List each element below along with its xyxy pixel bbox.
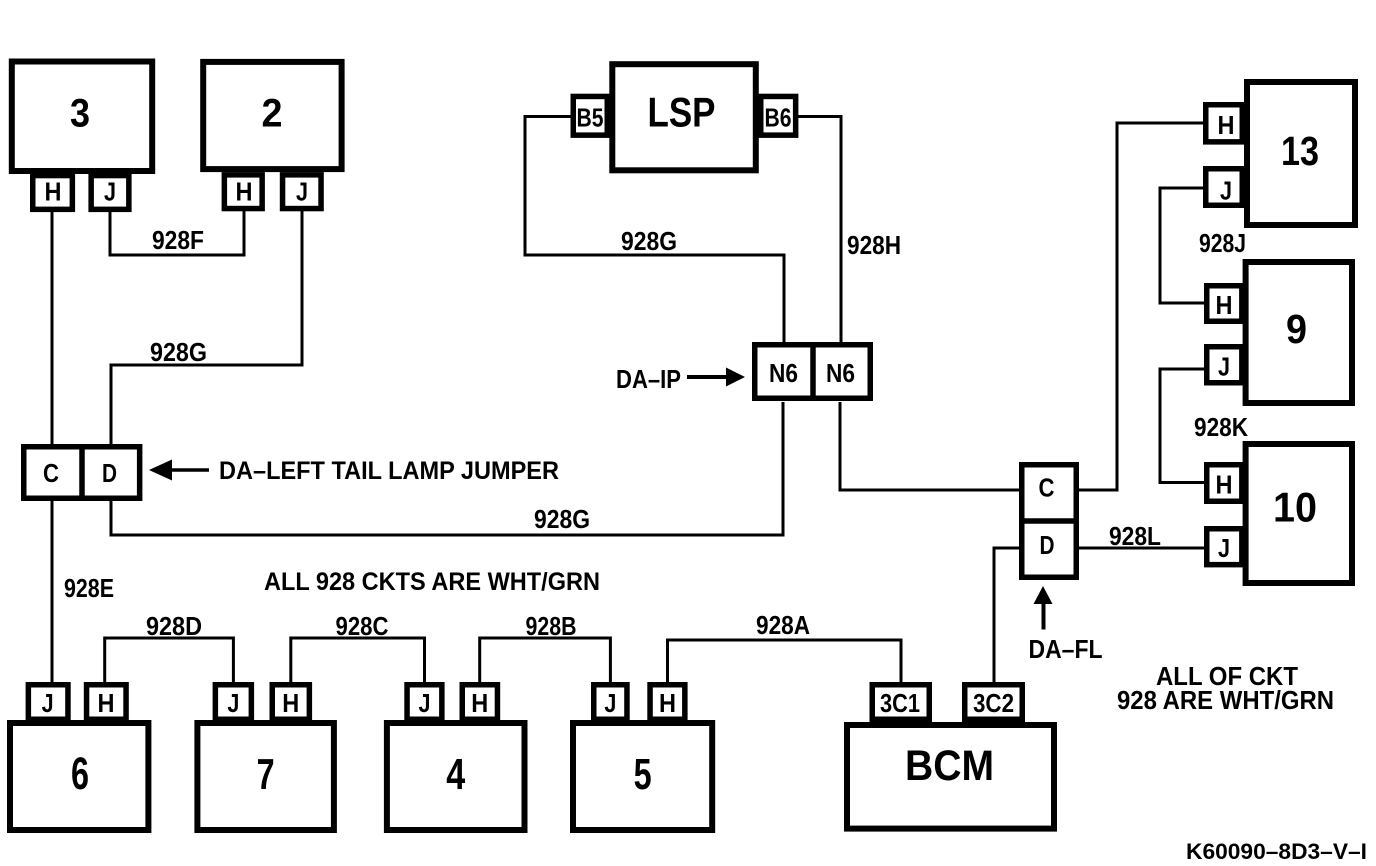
connector J of box 10 bbox=[1207, 529, 1242, 565]
wire 928D from H of 6 to J of 7 bbox=[105, 638, 234, 683]
svg-text:J: J bbox=[1218, 352, 1230, 382]
svg-text:N6: N6 bbox=[826, 358, 855, 388]
svg-text:5: 5 bbox=[634, 750, 652, 799]
svg-text:C: C bbox=[43, 458, 59, 488]
connector 3C1 of BCM bbox=[872, 685, 929, 720]
wire 928H from B6 of LSP to right N6 bbox=[796, 117, 841, 344]
connector H of box 10 bbox=[1207, 465, 1242, 502]
wire 928G long from D of left jumper to left N6 bbox=[111, 402, 783, 535]
svg-text:B5: B5 bbox=[577, 103, 604, 133]
wire 928C from H of 7 to J of 4 bbox=[291, 638, 425, 683]
svg-text:928G: 928G bbox=[150, 337, 207, 367]
svg-text:J: J bbox=[42, 688, 54, 718]
box 3 bbox=[12, 62, 152, 172]
connector H of box 7 bbox=[272, 685, 309, 720]
svg-text:928E: 928E bbox=[64, 573, 114, 603]
svg-text:928A: 928A bbox=[756, 610, 810, 640]
svg-text:H: H bbox=[1218, 110, 1235, 140]
connector J of box 7 bbox=[215, 685, 251, 720]
connector H of box 2 bbox=[224, 175, 262, 209]
connector H of box 6 bbox=[87, 685, 127, 720]
svg-text:DA–LEFT TAIL LAMP JUMPER: DA–LEFT TAIL LAMP JUMPER bbox=[219, 457, 559, 485]
box 2 bbox=[203, 62, 341, 169]
svg-text:3C1: 3C1 bbox=[880, 688, 920, 718]
connector H of box 13 bbox=[1206, 105, 1243, 142]
svg-text:J: J bbox=[419, 688, 431, 718]
connector pair N6 N6 bbox=[755, 345, 871, 399]
connector H of box 9 bbox=[1207, 286, 1242, 322]
svg-text:928J: 928J bbox=[1199, 228, 1246, 258]
wire 928J from J of 13 to H of 9 bbox=[1160, 188, 1205, 303]
svg-text:H: H bbox=[471, 688, 488, 718]
svg-text:928B: 928B bbox=[526, 611, 577, 641]
wire from right N6 down to C of right connector bbox=[840, 402, 1020, 490]
svg-text:N6: N6 bbox=[769, 358, 798, 388]
svg-text:DA–FL: DA–FL bbox=[1029, 634, 1103, 664]
svg-text:H: H bbox=[659, 688, 676, 718]
svg-text:J: J bbox=[604, 688, 616, 718]
svg-text:H: H bbox=[282, 688, 299, 718]
box BCM bbox=[847, 725, 1054, 829]
box 13 bbox=[1247, 82, 1355, 225]
svg-text:928K: 928K bbox=[1194, 412, 1248, 442]
svg-text:13: 13 bbox=[1281, 128, 1319, 174]
svg-text:3: 3 bbox=[70, 92, 90, 136]
svg-text:D: D bbox=[1040, 530, 1055, 560]
connector J of box 5 bbox=[594, 685, 627, 720]
svg-text:10: 10 bbox=[1273, 484, 1317, 531]
connector J of box 3 bbox=[91, 176, 129, 210]
arrow to DA-LEFT TAIL LAMP JUMPER bbox=[149, 460, 172, 481]
svg-text:928H: 928H bbox=[847, 230, 901, 260]
connector J of box 6 bbox=[28, 685, 68, 720]
svg-text:928D: 928D bbox=[146, 611, 202, 641]
svg-text:928G: 928G bbox=[534, 504, 590, 534]
connector pair C D left tail lamp jumper bbox=[24, 447, 140, 499]
wire from D of right connector down to 3C2 of BCM bbox=[994, 548, 1020, 683]
svg-text:J: J bbox=[1220, 176, 1232, 206]
connector J of box 2 bbox=[283, 175, 322, 209]
svg-text:H: H bbox=[1216, 290, 1233, 320]
box 4 bbox=[387, 723, 525, 830]
svg-text:H: H bbox=[98, 688, 115, 718]
connector B5 of LSP bbox=[573, 96, 607, 135]
connector H of box 5 bbox=[650, 685, 685, 720]
box 10 bbox=[1246, 444, 1352, 583]
arrow DA-FL pointing up bbox=[1034, 586, 1053, 604]
svg-text:928F: 928F bbox=[152, 225, 204, 255]
wire 928L from D of right connector to J of 10 bbox=[1078, 547, 1205, 550]
svg-text:K60090–8D3–V–I: K60090–8D3–V–I bbox=[1186, 839, 1367, 864]
svg-text:J: J bbox=[1218, 533, 1230, 563]
svg-text:B6: B6 bbox=[765, 103, 792, 133]
wire 928G from B5 of LSP to left N6 bbox=[525, 117, 784, 344]
svg-text:928L: 928L bbox=[1109, 521, 1161, 551]
wire 928G from J of 2 down-left to D of left jumper bbox=[111, 211, 302, 446]
svg-text:928C: 928C bbox=[336, 611, 389, 641]
connector J of box 13 bbox=[1206, 169, 1243, 206]
svg-text:J: J bbox=[296, 177, 308, 207]
connector B6 of LSP bbox=[761, 96, 796, 135]
wire 928E from H of 3 down through C to J of 6 bbox=[51, 212, 54, 682]
connector J of box 9 bbox=[1207, 347, 1242, 383]
connector pair C D right DA-FL bbox=[1022, 465, 1077, 578]
svg-text:H: H bbox=[236, 177, 253, 207]
connector J of box 4 bbox=[407, 685, 442, 720]
svg-text:H: H bbox=[1216, 470, 1233, 500]
svg-text:LSP: LSP bbox=[648, 89, 716, 136]
svg-text:6: 6 bbox=[71, 748, 89, 799]
svg-text:BCM: BCM bbox=[905, 742, 994, 790]
wire 928K from J of 9 to H of 10 bbox=[1160, 369, 1205, 483]
svg-text:4: 4 bbox=[446, 750, 465, 799]
wire 928F from J of 3 to H of 2 bbox=[110, 211, 244, 255]
svg-text:C: C bbox=[1039, 473, 1055, 503]
box 7 bbox=[197, 723, 334, 830]
box 6 bbox=[10, 723, 148, 830]
box 5 bbox=[573, 723, 712, 830]
svg-text:J: J bbox=[104, 177, 116, 207]
connector 3C2 of BCM bbox=[965, 685, 1023, 720]
svg-text:DA–IP: DA–IP bbox=[616, 364, 681, 394]
wire 928B from H of 4 to J of 5 bbox=[480, 638, 611, 683]
wire 928A from H of 5 to 3C1 of BCM bbox=[668, 640, 902, 683]
svg-text:H: H bbox=[45, 177, 62, 207]
box LSP bbox=[612, 64, 756, 170]
svg-text:7: 7 bbox=[257, 750, 275, 799]
svg-text:9: 9 bbox=[1286, 306, 1307, 352]
svg-text:J: J bbox=[227, 688, 239, 718]
svg-text:3C2: 3C2 bbox=[973, 688, 1014, 718]
wire from C of right connector up to H of 13 bbox=[1078, 123, 1204, 490]
svg-text:D: D bbox=[102, 458, 117, 488]
svg-text:928G: 928G bbox=[621, 226, 677, 256]
svg-text:2: 2 bbox=[262, 92, 283, 136]
connector H of box 4 bbox=[462, 685, 497, 720]
svg-text:928 ARE WHT/GRN: 928 ARE WHT/GRN bbox=[1117, 685, 1334, 715]
svg-text:ALL 928 CKTS ARE WHT/GRN: ALL 928 CKTS ARE WHT/GRN bbox=[264, 568, 600, 596]
box 9 bbox=[1246, 262, 1352, 403]
connector H of box 3 bbox=[33, 176, 73, 210]
